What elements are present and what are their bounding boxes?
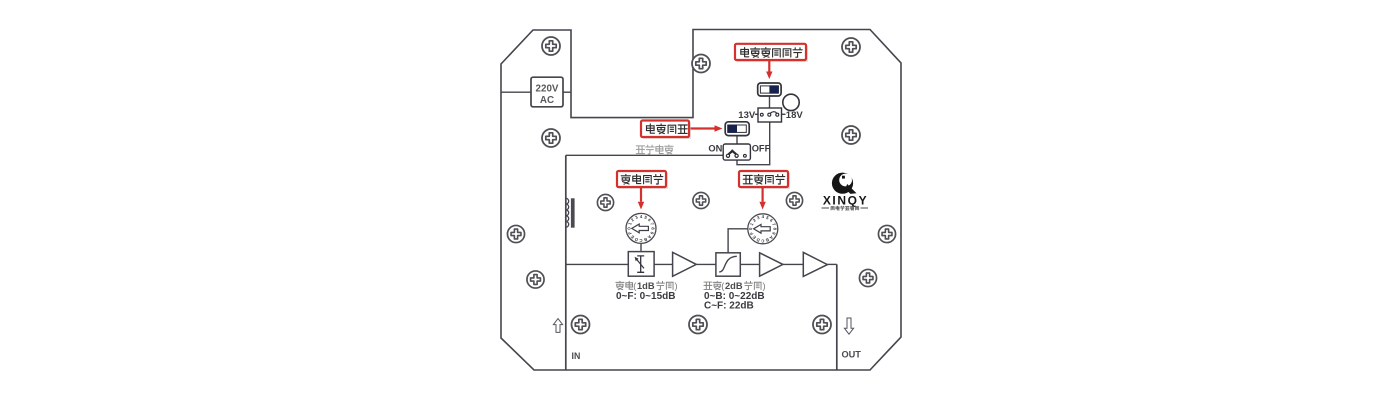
svg-text:XINQY: XINQY <box>823 193 868 207</box>
svg-text:ON: ON <box>708 143 722 153</box>
svg-text:13V: 13V <box>738 110 756 121</box>
svg-text:1dB: 1dB <box>637 281 655 291</box>
svg-text:C~F: 22dB: C~F: 22dB <box>704 301 754 312</box>
svg-text:AC: AC <box>540 95 554 106</box>
svg-text:C: C <box>639 238 642 243</box>
svg-text:C: C <box>761 238 764 243</box>
svg-text:OFF: OFF <box>752 143 771 153</box>
svg-text:0~F: 0~15dB: 0~F: 0~15dB <box>616 291 675 302</box>
svg-text:): ) <box>763 281 766 291</box>
svg-text:18V: 18V <box>786 110 804 121</box>
svg-text:IN: IN <box>572 351 581 361</box>
svg-text:OUT: OUT <box>842 350 862 360</box>
svg-text:(: ( <box>721 281 724 291</box>
svg-text:): ) <box>675 281 678 291</box>
svg-text:(: ( <box>633 281 636 291</box>
svg-text:2dB: 2dB <box>725 281 743 291</box>
svg-text:220V: 220V <box>536 84 559 95</box>
